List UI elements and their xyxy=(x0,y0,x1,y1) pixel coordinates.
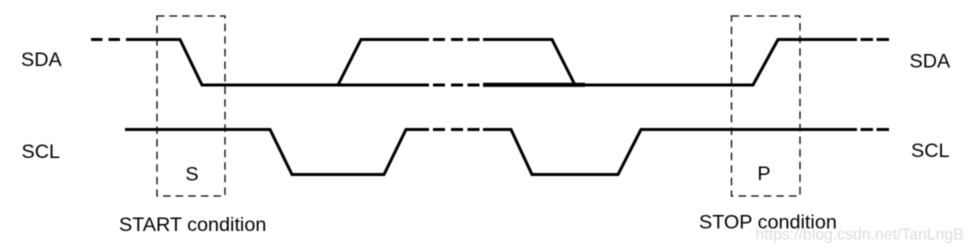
wire SCL right trailing dash 2 xyxy=(877,128,890,131)
wire SCL break dashes xyxy=(433,128,480,131)
svg-text:SDA: SDA xyxy=(910,51,951,73)
wire SDA data pulse rising edge and high level to break xyxy=(338,40,429,86)
wire SDA low-level break dashes xyxy=(433,84,480,87)
START condition dashed box xyxy=(157,16,225,196)
wire SDA data pulse high after break and falling edge xyxy=(483,40,575,86)
wire SCL right trailing dash 1 xyxy=(861,128,874,131)
wire SDA left lead-in dash 2 xyxy=(109,38,121,41)
wire SCL high level, first clock low pulse, rise, high to break xyxy=(125,130,429,175)
wire SDA right trailing dash 2 xyxy=(877,38,890,41)
svg-text:SCL: SCL xyxy=(22,141,60,163)
svg-text:S: S xyxy=(185,164,198,186)
wire SDA low level after break, STOP rising edge, high level xyxy=(483,40,857,86)
svg-text:P: P xyxy=(757,163,770,185)
wire SCL after break: high, second clock low pulse, rise, long high level xyxy=(483,130,857,175)
wire SDA high-level break dashes xyxy=(433,38,480,41)
wire SDA high level, START falling edge, low level to break xyxy=(126,40,429,86)
wire SDA right trailing dash 1 xyxy=(861,38,874,41)
STOP condition dashed box xyxy=(732,16,801,196)
svg-text:START condition: START condition xyxy=(119,214,266,236)
wire SDA low thick overlap segment after break xyxy=(483,83,585,87)
wire SDA left lead-in dash 1 xyxy=(91,38,103,41)
svg-text:SCL: SCL xyxy=(911,140,949,162)
svg-text:https://blog.csdn.net/TanLngB: https://blog.csdn.net/TanLngB xyxy=(756,227,964,244)
svg-text:SDA: SDA xyxy=(21,49,62,71)
